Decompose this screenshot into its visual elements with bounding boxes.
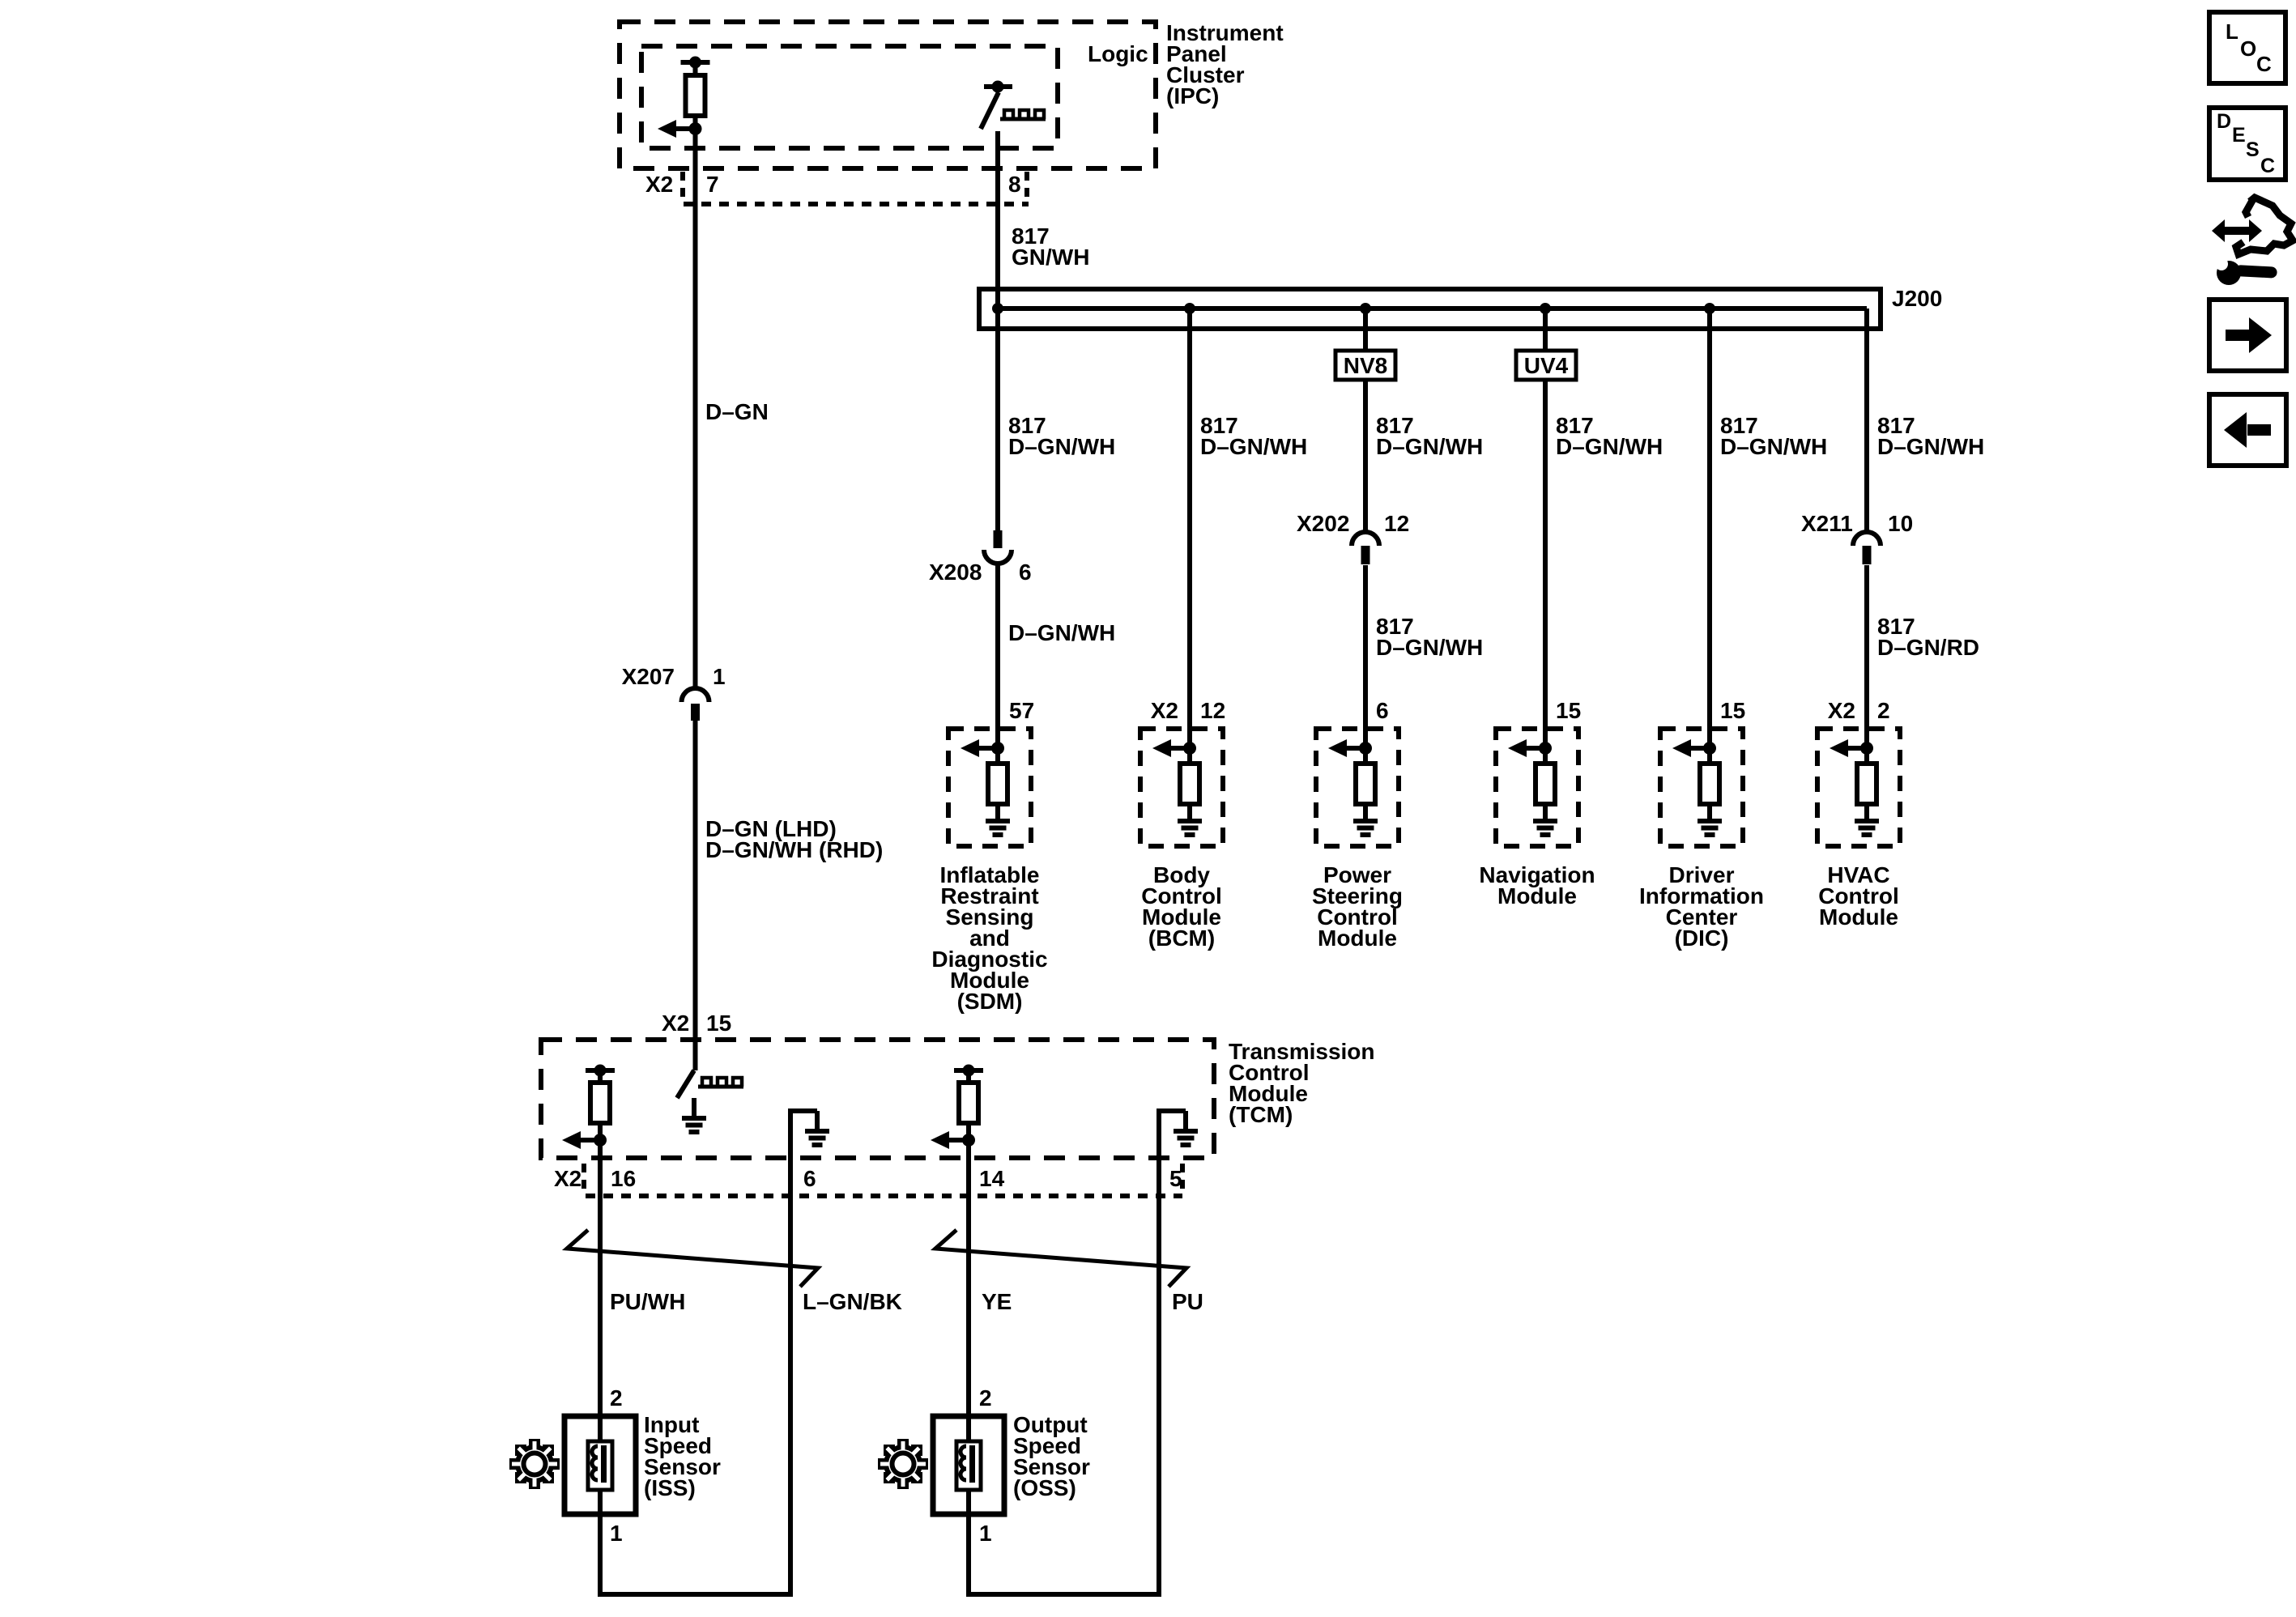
svg-text:L: L	[2226, 19, 2238, 44]
svg-text:(BCM): (BCM)	[1148, 926, 1215, 951]
svg-text:D–GN/WH: D–GN/WH	[1556, 434, 1663, 459]
svg-text:2: 2	[610, 1385, 623, 1411]
svg-text:D–GN/WH: D–GN/WH	[1720, 434, 1827, 459]
svg-text:D–GN/WH (RHD): D–GN/WH (RHD)	[705, 837, 883, 862]
svg-text:1: 1	[610, 1521, 623, 1546]
svg-text:(TCM): (TCM)	[1229, 1102, 1293, 1127]
svg-text:D–GN/WH: D–GN/WH	[1008, 434, 1115, 459]
svg-text:D–GN: D–GN	[705, 399, 769, 424]
svg-text:2: 2	[979, 1385, 992, 1411]
svg-text:6: 6	[803, 1166, 816, 1191]
svg-text:UV4: UV4	[1524, 353, 1569, 378]
svg-text:12: 12	[1200, 698, 1225, 723]
svg-text:PU/WH: PU/WH	[610, 1289, 685, 1314]
svg-text:NV8: NV8	[1344, 353, 1387, 378]
svg-text:16: 16	[611, 1166, 636, 1191]
svg-text:S: S	[2246, 138, 2260, 161]
svg-text:2: 2	[1877, 698, 1890, 723]
svg-text:J200: J200	[1892, 286, 1942, 311]
svg-text:D–GN/WH: D–GN/WH	[1200, 434, 1307, 459]
svg-text:D–GN/WH: D–GN/WH	[1008, 620, 1115, 645]
svg-text:D–GN/WH: D–GN/WH	[1376, 635, 1483, 660]
svg-text:7: 7	[706, 172, 719, 197]
svg-text:L–GN/BK: L–GN/BK	[803, 1289, 902, 1314]
svg-text:Module: Module	[1318, 926, 1397, 951]
svg-text:X208: X208	[929, 560, 982, 585]
svg-text:1: 1	[979, 1521, 992, 1546]
svg-text:(OSS): (OSS)	[1013, 1475, 1076, 1500]
svg-text:D: D	[2217, 110, 2231, 133]
svg-text:X2: X2	[645, 172, 673, 197]
svg-text:X2: X2	[554, 1166, 581, 1191]
svg-text:15: 15	[1720, 698, 1745, 723]
svg-text:(ISS): (ISS)	[644, 1475, 696, 1500]
svg-text:D–GN/RD: D–GN/RD	[1877, 635, 1979, 660]
svg-text:(SDM): (SDM)	[957, 989, 1023, 1014]
svg-text:Logic: Logic	[1088, 41, 1148, 66]
svg-text:12: 12	[1384, 511, 1409, 536]
svg-text:X2: X2	[1151, 698, 1178, 723]
svg-text:C: C	[2260, 155, 2275, 177]
svg-text:57: 57	[1009, 698, 1034, 723]
svg-text:X2: X2	[1828, 698, 1855, 723]
svg-text:X207: X207	[622, 664, 675, 689]
svg-text:8: 8	[1008, 172, 1021, 197]
svg-text:X211: X211	[1801, 511, 1853, 536]
svg-text:10: 10	[1888, 511, 1913, 536]
svg-text:Module: Module	[1497, 883, 1577, 908]
svg-text:D–GN/WH: D–GN/WH	[1376, 434, 1483, 459]
svg-text:15: 15	[706, 1011, 731, 1036]
svg-text:1: 1	[713, 664, 726, 689]
svg-text:PU: PU	[1172, 1289, 1203, 1314]
svg-text:E: E	[2232, 124, 2246, 147]
svg-text:GN/WH: GN/WH	[1012, 245, 1089, 270]
svg-text:(DIC): (DIC)	[1675, 926, 1729, 951]
svg-text:15: 15	[1556, 698, 1581, 723]
svg-text:(IPC): (IPC)	[1166, 83, 1219, 109]
svg-text:YE: YE	[982, 1289, 1012, 1314]
svg-text:5: 5	[1169, 1166, 1182, 1191]
svg-text:6: 6	[1019, 560, 1032, 585]
svg-text:6: 6	[1376, 698, 1389, 723]
svg-text:14: 14	[979, 1166, 1005, 1191]
svg-text:O: O	[2240, 36, 2256, 61]
svg-text:X202: X202	[1297, 511, 1349, 536]
svg-text:C: C	[2256, 52, 2272, 76]
svg-text:Module: Module	[1819, 904, 1898, 930]
svg-text:D–GN/WH: D–GN/WH	[1877, 434, 1984, 459]
svg-text:X2: X2	[662, 1011, 689, 1036]
